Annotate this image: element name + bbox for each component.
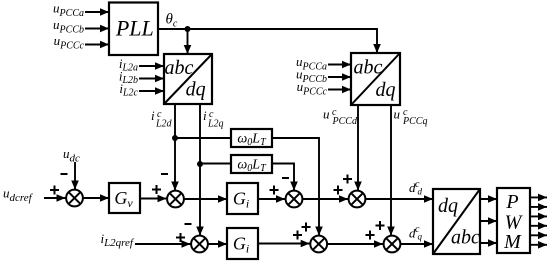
summer S4 — [349, 191, 366, 208]
svg-text:dq: dq — [376, 79, 396, 101]
wire u_PCCq down to summer S7 — [390, 105, 392, 236]
node on i_L2q wire — [197, 161, 203, 167]
wire u_PCCa into right abc/dq — [328, 64, 351, 66]
wire dq/abc to PWM phase b — [480, 220, 497, 222]
wire PWM output 2 — [530, 206, 547, 208]
sign plus at S7 left — [366, 231, 375, 240]
wire i_L2q branch to w0LT2 — [200, 163, 231, 165]
block PWM — [497, 188, 530, 253]
svg-text:abc: abc — [354, 57, 383, 79]
wire i_L2d^c down to summer S2 — [174, 104, 176, 191]
wire w0LT1 output to summer S6 — [272, 138, 319, 236]
sign plus at S1 left — [50, 186, 59, 195]
summer S3 — [286, 191, 303, 208]
sign minus at S5 top — [185, 223, 192, 225]
wire PWM output 1 — [530, 196, 547, 198]
wire i_L2qref into summer S5 — [135, 243, 191, 245]
summer S7 — [384, 236, 401, 253]
label u_PCCq^c — [394, 107, 428, 128]
summer S1 — [66, 190, 83, 207]
node on theta_c wire — [185, 26, 191, 32]
sign plus at S4 left — [334, 186, 343, 195]
sign minus at S2 top — [161, 173, 168, 175]
wire PWM output 3 — [530, 215, 547, 217]
wire S3 to summer S4 — [302, 198, 348, 200]
wire u_PCCb into PLL — [85, 28, 109, 30]
svg-text:u: u — [394, 107, 401, 122]
svg-text:P: P — [505, 191, 518, 213]
wire u_PCCb into right abc/dq — [328, 76, 351, 78]
sign plus at S3 left — [270, 186, 279, 195]
block Gi lower — [227, 228, 258, 259]
svg-text:PCCd: PCCd — [332, 116, 358, 127]
svg-text:PLL: PLL — [115, 16, 154, 41]
node on i_L2d wire — [172, 135, 178, 141]
wire theta_c branch down into left abc/dq — [187, 29, 189, 54]
svg-text:i: i — [203, 108, 207, 123]
svg-text:q: q — [418, 232, 423, 242]
label d_d^c — [409, 179, 423, 197]
sign minus at S3 top — [282, 177, 289, 179]
svg-text:abc: abc — [451, 227, 480, 249]
block PLL — [109, 3, 158, 56]
svg-text:u: u — [323, 107, 330, 122]
sign plus at S6 top — [302, 223, 311, 232]
wire u_PCCd down to summer S4 — [357, 105, 359, 191]
wire w0LT2 output to summer S3 — [272, 164, 294, 191]
svg-text:abc: abc — [165, 57, 194, 79]
wire PWM output 5 — [530, 234, 547, 236]
wire i_L2b into abc/dq — [139, 78, 164, 80]
svg-text:L2d: L2d — [155, 119, 173, 130]
wire u_dcref into summer S1 — [44, 197, 66, 199]
wire S2 to Gi upper — [184, 198, 228, 200]
sign plus at S4 top — [343, 175, 352, 184]
summer S2 — [167, 191, 184, 208]
label u_PCCd^c — [323, 107, 358, 128]
svg-text:L2q: L2q — [207, 119, 224, 130]
sign minus at S1 top — [61, 173, 68, 175]
sign plus at S2 left — [152, 185, 161, 194]
wire S6 to summer S7 — [327, 243, 383, 245]
wire i_L2q^c down to summer S5 — [199, 104, 201, 236]
wire dq/abc to PWM phase a — [480, 198, 497, 200]
wire S4 to dq/abc block (d axis) — [365, 198, 433, 200]
wire theta_c from PLL to right abc/dq — [158, 29, 377, 52]
label d_q^c — [409, 224, 423, 242]
svg-text:d: d — [418, 187, 423, 197]
wire u_dc into summer S1 — [74, 162, 76, 190]
sign plus at S7 top — [376, 221, 385, 230]
label i_L2q^c — [203, 108, 224, 130]
wire PWM output 6 — [530, 244, 547, 246]
wire Gi upper to summer S3 — [258, 198, 285, 200]
wire Gi lower to summer S6 — [258, 243, 310, 245]
svg-text:dq: dq — [186, 79, 206, 101]
block w0LT upper — [231, 129, 272, 148]
svg-text:PCCq: PCCq — [402, 116, 427, 127]
wire S5 to Gi lower — [208, 243, 228, 245]
svg-text:i: i — [151, 108, 155, 123]
sign plus at S6 left — [293, 231, 302, 240]
wire i_L2a into abc/dq — [139, 65, 164, 67]
summer S6 — [310, 236, 327, 253]
block abc/dq voltage transform — [351, 53, 400, 105]
wire u_PCCa into PLL — [85, 11, 109, 13]
wire i_L2d branch to w0LT1 — [175, 137, 231, 139]
svg-text:dq: dq — [438, 195, 458, 217]
block Gv — [109, 183, 140, 213]
wire i_L2c into abc/dq — [139, 90, 164, 92]
block dq/abc inverse transform — [433, 189, 480, 254]
wire u_PCCc into right abc/dq — [328, 89, 351, 91]
label i_L2d^c — [151, 108, 173, 130]
block w0LT lower — [231, 155, 272, 174]
svg-text:M: M — [503, 231, 522, 253]
wire Gv to summer S2 — [140, 198, 167, 200]
summer S5 — [191, 236, 208, 253]
block abc/dq current transform — [164, 54, 212, 104]
wire PWM output 4 — [530, 225, 547, 227]
wire S7 to dq/abc block (q axis) — [400, 243, 433, 245]
block Gi upper — [227, 183, 258, 214]
sign plus at S5 left — [176, 233, 185, 242]
wire S1 to Gv — [83, 197, 110, 199]
wire u_PCCc into PLL — [85, 44, 109, 46]
wire dq/abc to PWM phase c — [480, 242, 497, 244]
